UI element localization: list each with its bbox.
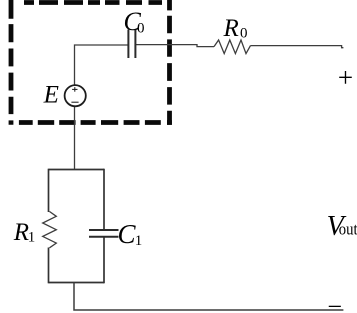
svg-text:R: R — [223, 15, 239, 42]
svg-text:1: 1 — [135, 233, 143, 249]
svg-text:C: C — [118, 219, 137, 249]
svg-text:0: 0 — [137, 21, 145, 37]
svg-text:E: E — [43, 82, 59, 109]
svg-text:+: + — [338, 63, 353, 93]
svg-text:−: − — [327, 292, 342, 313]
svg-text:0: 0 — [240, 26, 248, 42]
svg-text:1: 1 — [28, 230, 36, 246]
svg-text:out: out — [339, 219, 357, 238]
svg-text:R: R — [13, 219, 29, 246]
